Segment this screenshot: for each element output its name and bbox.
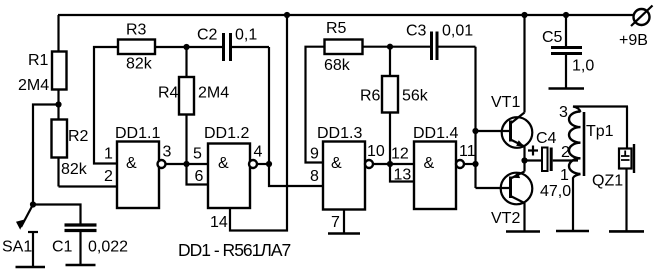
svg-text:&: & xyxy=(331,155,342,172)
node DD1.1 out / R4 xyxy=(183,161,189,167)
svg-text:13: 13 xyxy=(394,167,412,184)
wire SA1 to C1 xyxy=(33,205,81,224)
svg-text:R6: R6 xyxy=(360,88,381,105)
svg-text:1: 1 xyxy=(104,146,113,163)
node R3/R4/C2 xyxy=(183,44,189,50)
wire to DD1.3 pin 8 xyxy=(269,164,323,186)
node R1-R2 junction xyxy=(55,101,61,107)
node VT1 base tap xyxy=(472,128,478,134)
ground C1 xyxy=(66,264,96,267)
resistor R4 xyxy=(179,47,194,164)
svg-text:56k: 56k xyxy=(402,88,429,105)
svg-text:DD1.1: DD1.1 xyxy=(115,125,160,142)
svg-text:VT1: VT1 xyxy=(491,94,520,111)
resistor R1 xyxy=(52,15,67,105)
node emitters C4 xyxy=(521,157,527,163)
resistor R6 xyxy=(382,47,398,164)
wire DD1.3 output xyxy=(373,163,390,165)
svg-text:Tp1: Tp1 xyxy=(586,123,614,140)
svg-text:47,0: 47,0 xyxy=(540,183,571,200)
quartz QZ1 xyxy=(619,107,634,232)
wire to DD1.4 pins 12,13 xyxy=(390,164,414,182)
svg-text:R1: R1 xyxy=(28,52,49,69)
wire R5 right to node xyxy=(363,46,391,48)
ground DD1.3 pin7 xyxy=(328,232,360,235)
node DD1.2 out / C2 xyxy=(266,161,272,167)
ground QZ1 xyxy=(609,230,644,233)
ground Tp1 pin1 xyxy=(556,230,589,233)
wire R5 left to DD1.3 pin 9 xyxy=(306,47,325,163)
svg-text:0,022: 0,022 xyxy=(88,239,128,256)
node DD1.3 out / R6 xyxy=(387,161,393,167)
svg-text:C2: C2 xyxy=(197,27,218,44)
svg-text:+9В: +9В xyxy=(619,32,648,49)
svg-text:1: 1 xyxy=(560,167,569,184)
svg-text:8: 8 xyxy=(310,168,319,185)
svg-text:3: 3 xyxy=(163,144,172,161)
wire to DD1.2 pins 5,6 xyxy=(187,164,209,185)
transformer Tp1 xyxy=(569,107,628,232)
capacitor C3 xyxy=(390,32,476,61)
svg-text:SA1: SA1 xyxy=(2,239,32,256)
svg-text:2: 2 xyxy=(561,144,570,161)
svg-text:2: 2 xyxy=(104,168,113,185)
svg-text:7: 7 xyxy=(331,214,340,231)
svg-text:DD1.3: DD1.3 xyxy=(317,125,362,142)
node R5/R6/C3 xyxy=(387,44,393,50)
svg-text:2M4: 2M4 xyxy=(18,77,49,94)
wire DD1.2 pin14 to +9V xyxy=(230,15,287,231)
node rail pin14 xyxy=(284,12,290,18)
svg-text:R3: R3 xyxy=(126,22,147,39)
wire to VT2 base xyxy=(476,187,510,189)
transistor VT1 xyxy=(502,15,533,161)
svg-text:9: 9 xyxy=(310,146,319,163)
node DD1.4 out / C3 xyxy=(472,161,478,167)
svg-text:&: & xyxy=(424,155,435,172)
svg-text:C5: C5 xyxy=(542,29,563,46)
svg-text:1,0: 1,0 xyxy=(572,58,594,75)
op-amp gate DD1.2 xyxy=(208,144,257,209)
op-amp gate DD1.3 xyxy=(323,142,373,210)
wire DD1.1 output xyxy=(166,163,187,165)
svg-text:0,1: 0,1 xyxy=(235,27,257,44)
wire DD1.4 output xyxy=(464,163,476,165)
node SA1 junction xyxy=(30,201,36,207)
svg-text:VT2: VT2 xyxy=(491,210,520,227)
switch SA1 xyxy=(16,205,38,268)
ground VT2 xyxy=(506,230,540,233)
wire R2 to DD1.1 pin2 xyxy=(59,185,118,187)
svg-text:DD1.2: DD1.2 xyxy=(204,125,249,142)
wire junction to SA1 xyxy=(33,105,59,205)
wire R3 right to node xyxy=(155,46,187,48)
transistor VT2 xyxy=(501,161,533,232)
wire to VT1 base xyxy=(476,130,510,132)
svg-text:10: 10 xyxy=(367,143,385,160)
svg-text:&: & xyxy=(218,155,229,172)
svg-text:R2: R2 xyxy=(68,128,89,145)
svg-text:2M4: 2M4 xyxy=(198,85,229,102)
wire top +9V rail xyxy=(58,14,633,16)
wire C3 right down to DD1.4 output xyxy=(474,47,476,188)
svg-text:DD1.4: DD1.4 xyxy=(413,125,458,142)
svg-text:0,01: 0,01 xyxy=(442,23,473,40)
svg-text:4: 4 xyxy=(254,144,263,161)
capacitor C5 xyxy=(551,15,582,89)
capacitor C2 xyxy=(187,33,270,61)
wire R3 left to DD1.1 pin1 xyxy=(94,47,118,164)
wire DD1.3 pin7 ground stub xyxy=(343,210,345,234)
capacitor C4 xyxy=(525,146,579,172)
connector X1 +9V xyxy=(631,6,653,27)
svg-text:68k: 68k xyxy=(324,57,351,74)
svg-text:82k: 82k xyxy=(61,161,88,178)
svg-text:12: 12 xyxy=(391,146,409,163)
svg-text:DD1 - R561ЛА7: DD1 - R561ЛА7 xyxy=(178,240,291,260)
wire C2 right down to DD1.2 output xyxy=(268,47,270,164)
op-amp gate DD1.1 xyxy=(117,142,166,209)
svg-text:14: 14 xyxy=(210,214,228,231)
svg-text:5: 5 xyxy=(193,146,202,163)
op-amp gate DD1.4 xyxy=(414,142,464,210)
ground SA1 xyxy=(16,266,46,269)
svg-text:11: 11 xyxy=(459,143,476,160)
node rail VT1 collector xyxy=(521,12,527,18)
svg-text:&: & xyxy=(126,155,137,172)
wire DD1.2 output xyxy=(257,163,269,165)
svg-text:QZ1: QZ1 xyxy=(592,173,623,190)
resistor R5 xyxy=(325,40,363,55)
svg-text:C3: C3 xyxy=(406,23,427,40)
svg-text:6: 6 xyxy=(195,168,204,185)
svg-text:3: 3 xyxy=(559,104,568,121)
node rail C5 xyxy=(563,12,569,18)
svg-text:R4: R4 xyxy=(158,85,179,102)
svg-text:C1: C1 xyxy=(52,239,73,256)
ground C5 xyxy=(549,87,585,90)
resistor R2 xyxy=(52,105,68,187)
svg-text:C4: C4 xyxy=(536,130,557,147)
svg-text:82k: 82k xyxy=(126,56,153,73)
capacitor C1 xyxy=(65,225,97,265)
svg-text:R5: R5 xyxy=(326,20,347,37)
resistor R3 xyxy=(118,40,155,55)
